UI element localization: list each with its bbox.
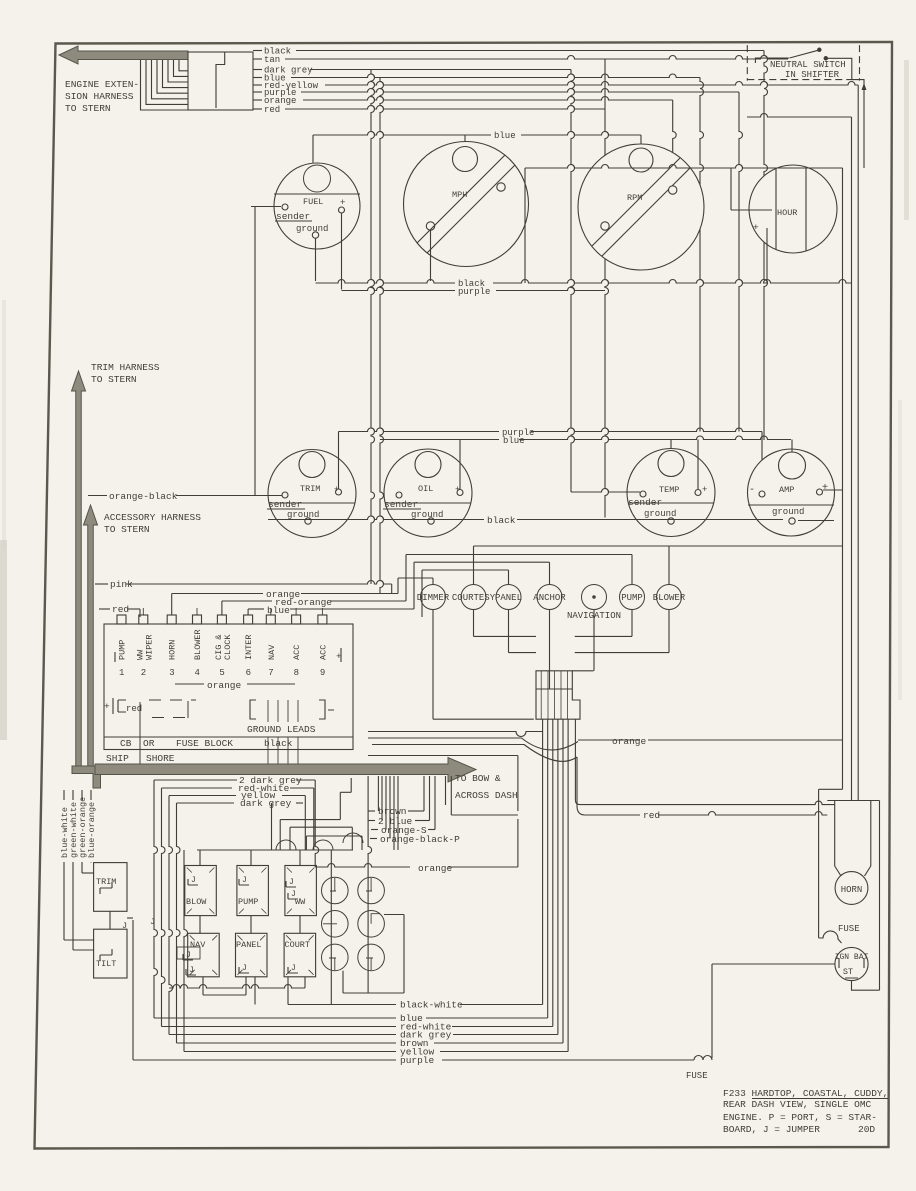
svg-text:FUSE: FUSE	[838, 924, 860, 934]
svg-text:5: 5	[219, 668, 224, 678]
svg-text:ground: ground	[411, 510, 443, 520]
svg-text:SION HARNESS: SION HARNESS	[65, 91, 134, 102]
svg-text:AMP: AMP	[779, 485, 794, 495]
svg-text:blue: blue	[494, 131, 516, 141]
svg-text:orange: orange	[418, 863, 453, 874]
svg-text:+: +	[702, 485, 707, 495]
svg-text:6: 6	[246, 668, 251, 678]
svg-text:-: -	[749, 485, 755, 496]
svg-text:HOUR: HOUR	[777, 208, 797, 218]
svg-text:TO BOW &: TO BOW &	[455, 773, 501, 784]
svg-text:WIPER: WIPER	[144, 634, 154, 660]
svg-text:NAV: NAV	[190, 940, 206, 950]
svg-text:J: J	[291, 964, 296, 973]
svg-text:BOARD, J = JUMPER: BOARD, J = JUMPER	[723, 1124, 820, 1135]
svg-text:red: red	[112, 604, 129, 615]
svg-text:CB: CB	[120, 738, 132, 749]
svg-text:FUSE BLOCK: FUSE BLOCK	[176, 738, 233, 749]
svg-text:ACCESSORY HARNESS: ACCESSORY HARNESS	[104, 512, 201, 523]
svg-text:ground: ground	[287, 510, 319, 520]
svg-text:FUSE: FUSE	[686, 1071, 708, 1081]
svg-text:J: J	[242, 964, 247, 973]
svg-text:J: J	[150, 917, 155, 927]
svg-text:ground: ground	[296, 224, 328, 234]
svg-text:orange-black-P: orange-black-P	[380, 834, 460, 845]
svg-text:COURT: COURT	[285, 940, 311, 950]
svg-text:9: 9	[320, 668, 325, 678]
svg-text:FUEL: FUEL	[303, 197, 323, 207]
svg-text:orange: orange	[612, 736, 647, 747]
svg-text:sender: sender	[268, 499, 302, 510]
svg-text:GROUND LEADS: GROUND LEADS	[247, 724, 316, 735]
svg-text:J: J	[242, 876, 247, 885]
svg-text:TRIM: TRIM	[300, 484, 320, 494]
svg-text:IGN BAT: IGN BAT	[835, 953, 869, 962]
svg-text:OR: OR	[143, 738, 155, 749]
svg-text:+: +	[104, 701, 110, 712]
svg-text:HORN: HORN	[841, 885, 863, 895]
svg-text:sender: sender	[384, 499, 418, 510]
svg-text:7: 7	[268, 668, 273, 678]
svg-text:20D: 20D	[858, 1124, 875, 1135]
svg-text:dark grey: dark grey	[240, 798, 292, 809]
svg-text:3: 3	[169, 668, 174, 678]
svg-text:tan: tan	[264, 55, 280, 65]
svg-text:NEUTRAL SWITCH: NEUTRAL SWITCH	[770, 60, 846, 70]
svg-text:4: 4	[195, 668, 200, 678]
svg-text:ground: ground	[772, 507, 804, 517]
svg-text:blue: blue	[267, 605, 290, 616]
svg-text:TRIM: TRIM	[96, 877, 116, 887]
svg-text:PUMP: PUMP	[621, 593, 643, 603]
svg-text:ANCHOR: ANCHOR	[533, 593, 566, 603]
svg-text:SHIP: SHIP	[106, 753, 129, 764]
svg-text:8: 8	[294, 668, 299, 678]
svg-text:2: 2	[141, 668, 146, 678]
svg-text:blue: blue	[503, 436, 525, 446]
svg-text:purple: purple	[458, 287, 490, 297]
svg-text:J: J	[189, 966, 194, 975]
svg-text:SHORE: SHORE	[146, 753, 175, 764]
svg-text:+: +	[340, 198, 345, 208]
svg-text:ENGINE. P = PORT, S = STAR-: ENGINE. P = PORT, S = STAR-	[723, 1112, 877, 1123]
svg-text:PANEL: PANEL	[495, 593, 522, 603]
svg-text:purple: purple	[400, 1055, 435, 1066]
svg-text:BLOW: BLOW	[186, 897, 207, 907]
svg-text:COURTESY: COURTESY	[452, 593, 496, 603]
svg-text:F233 HARDTOP, COASTAL, CUDDY,: F233 HARDTOP, COASTAL, CUDDY,	[723, 1088, 888, 1099]
svg-text:ACC: ACC	[318, 645, 328, 660]
svg-text:RPM: RPM	[627, 193, 642, 203]
svg-text:HORN: HORN	[168, 640, 178, 660]
svg-text:ACROSS DASH: ACROSS DASH	[455, 790, 518, 801]
svg-text:sender: sender	[276, 211, 310, 222]
svg-text:TEMP: TEMP	[659, 485, 679, 495]
svg-text:PUMP: PUMP	[238, 897, 258, 907]
svg-text:ST: ST	[843, 967, 853, 977]
svg-text:blue-orange: blue-orange	[87, 802, 97, 858]
svg-text:INTER: INTER	[244, 634, 254, 660]
svg-text:J: J	[291, 890, 296, 899]
svg-text:BLOWER: BLOWER	[193, 629, 203, 660]
svg-text:red: red	[264, 105, 280, 115]
svg-text:TRIM HARNESS: TRIM HARNESS	[91, 362, 160, 373]
svg-text:CLOCK: CLOCK	[223, 634, 233, 660]
svg-text:NAV: NAV	[267, 644, 277, 660]
svg-text:orange: orange	[207, 680, 242, 691]
svg-text:TILT: TILT	[96, 959, 116, 969]
svg-text:OIL: OIL	[418, 484, 433, 494]
svg-text:TO STERN: TO STERN	[91, 374, 137, 385]
svg-text:J: J	[289, 878, 294, 887]
svg-text:TO STERN: TO STERN	[104, 524, 150, 535]
svg-text:ENGINE EXTEN-: ENGINE EXTEN-	[65, 79, 139, 90]
svg-text:PUMP: PUMP	[118, 640, 128, 660]
svg-text:PANEL: PANEL	[236, 940, 262, 950]
svg-text:IN SHIFTER: IN SHIFTER	[785, 70, 840, 80]
svg-text:REAR DASH VIEW, SINGLE OMC: REAR DASH VIEW, SINGLE OMC	[723, 1099, 872, 1110]
svg-text:black: black	[487, 515, 516, 526]
svg-text:red: red	[643, 810, 660, 821]
svg-text:J: J	[191, 876, 196, 885]
svg-text:BLOWER: BLOWER	[653, 593, 686, 603]
svg-text:1: 1	[119, 668, 124, 678]
svg-text:black-white: black-white	[400, 1000, 463, 1011]
svg-text:J: J	[122, 921, 127, 931]
svg-text:orange-black: orange-black	[109, 491, 178, 502]
svg-text:+: +	[753, 222, 759, 233]
svg-text:ACC: ACC	[292, 645, 302, 660]
svg-text:TO STERN: TO STERN	[65, 103, 111, 114]
svg-text:MPH: MPH	[452, 190, 467, 200]
